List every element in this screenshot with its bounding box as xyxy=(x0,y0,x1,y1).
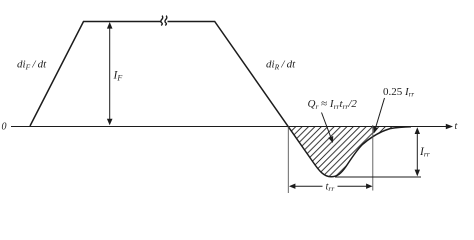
svg-text:0: 0 xyxy=(2,122,7,133)
hatched reverse-recovery charge area xyxy=(288,126,411,177)
break symbol on plateau xyxy=(161,16,163,26)
svg-text:diR / dt: diR / dt xyxy=(266,59,296,72)
Irr minimum tick line xyxy=(335,176,421,178)
svg-text:Irr: Irr xyxy=(419,146,430,159)
Irr measure arrow xyxy=(416,131,418,172)
svg-text:0.25 Irr: 0.25 Irr xyxy=(383,86,414,99)
svg-text:IF: IF xyxy=(113,70,123,83)
time axis xyxy=(11,126,448,128)
IF measure arrow (double headed vertical) xyxy=(109,26,111,121)
svg-text:Qr ≈ Irrtrr/2: Qr ≈ Irrtrr/2 xyxy=(308,98,358,111)
current waveform: plateau (right of break), fall, recovery dip xyxy=(168,22,412,177)
0.25 Irr leader arrow xyxy=(376,98,385,128)
svg-text:diF / dt: diF / dt xyxy=(17,59,47,72)
axis arrowhead xyxy=(446,124,453,130)
svg-text:trr: trr xyxy=(326,182,335,194)
svg-text:t: t xyxy=(455,121,458,132)
trr measure arrow xyxy=(289,184,296,189)
Qr leader arrow xyxy=(322,113,331,138)
left trr boundary line xyxy=(287,127,289,194)
current waveform: rise, plateau (left of break) xyxy=(30,22,161,127)
right trr boundary line xyxy=(372,125,374,191)
